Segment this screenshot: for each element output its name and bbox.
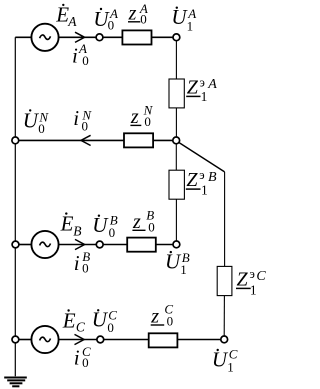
node B on bus <box>12 241 19 248</box>
node U0B <box>96 241 103 248</box>
wire phase A: bus to source <box>15 36 31 38</box>
svg-text:0: 0 <box>107 320 114 335</box>
ground <box>4 378 27 387</box>
resistor Z_e_C box (vertical) <box>217 266 232 295</box>
wire box z0A to node U1A <box>152 36 174 38</box>
svg-text:1: 1 <box>227 359 234 374</box>
svg-text:0: 0 <box>109 225 116 240</box>
node U0C <box>97 336 104 343</box>
svg-text:i: i <box>74 251 80 275</box>
label Z_e_A_1 <box>186 76 217 104</box>
node U1B <box>173 241 180 248</box>
wire bus to source B <box>19 244 32 246</box>
svg-text:1: 1 <box>180 262 187 277</box>
arrow i0N (points left) <box>81 135 91 145</box>
svg-text:э: э <box>200 76 205 90</box>
label i0N <box>73 106 92 134</box>
svg-text:0: 0 <box>38 121 45 136</box>
label E_C <box>62 308 86 334</box>
label U1B <box>165 250 190 278</box>
node C on bus <box>12 336 19 343</box>
node U0A <box>96 34 103 41</box>
wire ZB box to node U1B <box>175 199 177 241</box>
wire node U0B to box z0B <box>103 244 127 246</box>
svg-text:A: A <box>207 77 217 92</box>
resistor z0B box <box>127 238 156 252</box>
svg-text:B: B <box>208 170 217 185</box>
source EB <box>31 231 58 258</box>
label U1C <box>212 347 238 375</box>
node U1C <box>221 336 228 343</box>
svg-text:E: E <box>62 308 76 332</box>
svg-text:U: U <box>92 308 109 332</box>
node U0N on bus <box>12 137 19 144</box>
svg-text:э: э <box>250 267 255 281</box>
label U0B <box>92 213 118 240</box>
label z0N <box>130 103 154 129</box>
wire source B to node U0B with arrow <box>59 244 97 246</box>
wire node U1A down to ZA box <box>175 41 177 79</box>
arrow i0C (points right) <box>75 334 85 344</box>
wire ZA box to junction node <box>175 108 177 137</box>
svg-text:i: i <box>72 44 78 68</box>
source EA (circle with ~) <box>31 24 58 51</box>
wire node U0C to box z0C <box>104 339 149 341</box>
label z0A <box>128 1 148 27</box>
node U1A <box>173 34 180 41</box>
svg-text:E: E <box>60 211 74 235</box>
svg-text:Z: Z <box>186 169 198 191</box>
svg-text:0: 0 <box>82 53 89 68</box>
label z0C <box>150 301 173 328</box>
source EC <box>31 326 58 353</box>
svg-text:A: A <box>67 14 77 29</box>
label Z_e_C_1 <box>236 267 266 297</box>
wire box z0N to junction node <box>153 139 173 141</box>
svg-text:0: 0 <box>148 219 155 234</box>
wire node U0A to box z0A <box>103 36 123 38</box>
resistor z0C box <box>149 333 178 347</box>
svg-text:1: 1 <box>201 182 208 197</box>
wire left bus vertical <box>14 37 16 376</box>
wire vertical down to ZC box <box>224 172 226 267</box>
resistor Z_e_B box (vertical) <box>169 170 184 199</box>
wire source A to node U0A with current arrow <box>59 36 97 38</box>
svg-text:0: 0 <box>108 18 115 33</box>
wire bus to source C <box>19 339 32 341</box>
svg-text:i: i <box>74 346 80 370</box>
svg-text:C: C <box>256 269 266 284</box>
wire box z0C to node U1C <box>177 339 220 341</box>
label Z_e_B_1 <box>186 168 217 197</box>
wire ZC box to node U1C <box>223 296 225 337</box>
wire box z0B to node U1B <box>156 244 173 246</box>
svg-text:U: U <box>92 213 109 237</box>
svg-text:0: 0 <box>82 260 89 275</box>
wire diagonal from junction to phase C branch <box>179 142 225 172</box>
arrow i0B (points right) <box>75 239 85 249</box>
svg-text:э: э <box>199 168 204 182</box>
svg-text:E: E <box>55 3 69 27</box>
label i0A <box>72 41 89 68</box>
resistor Z_e_A box (vertical) <box>169 79 184 108</box>
svg-text:1: 1 <box>250 282 257 297</box>
resistor z0N box <box>124 133 153 147</box>
svg-text:1: 1 <box>187 18 194 33</box>
label U0C <box>92 307 118 334</box>
svg-text:1: 1 <box>201 89 208 104</box>
label i0C <box>74 344 91 370</box>
svg-text:C: C <box>76 319 86 334</box>
svg-text:i: i <box>73 106 79 130</box>
resistor z0A box <box>122 30 151 44</box>
svg-text:0: 0 <box>82 119 89 134</box>
wire neutral: node U0N to box z0N <box>19 139 124 141</box>
svg-text:B: B <box>73 224 81 239</box>
wire junction down to ZB box <box>175 144 177 170</box>
label E_A <box>55 3 77 29</box>
svg-text:Z: Z <box>237 269 249 291</box>
label i0B <box>74 249 90 275</box>
svg-text:0: 0 <box>82 355 89 370</box>
svg-text:0: 0 <box>140 11 147 26</box>
svg-text:0: 0 <box>144 114 151 129</box>
arrow i0A (points right) <box>75 32 85 42</box>
node N junction (right) <box>173 137 180 144</box>
svg-text:Z: Z <box>187 77 199 99</box>
label E_B <box>60 211 82 238</box>
label z0B <box>132 207 155 234</box>
svg-text:0: 0 <box>167 313 174 328</box>
label U0N <box>23 108 50 136</box>
label U0A <box>93 6 118 33</box>
label U1A <box>171 5 196 33</box>
wire source C to node U0C with arrow <box>59 339 97 341</box>
